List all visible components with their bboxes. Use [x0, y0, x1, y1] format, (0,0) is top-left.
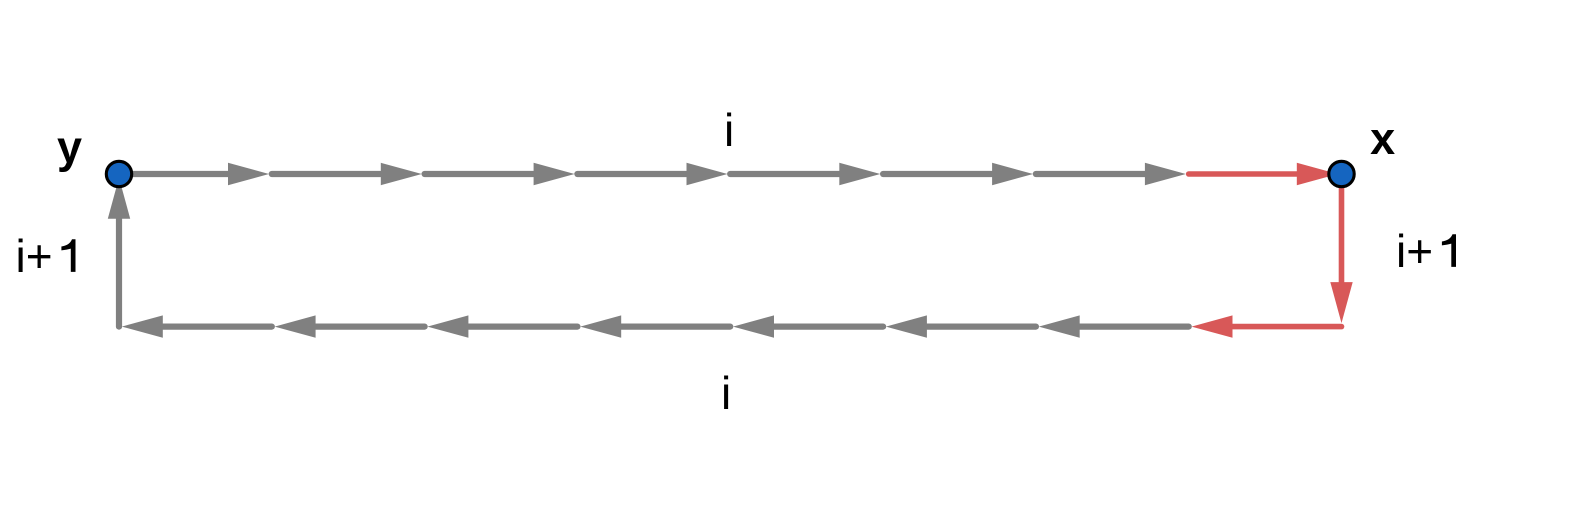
wire: right vertical from node x down (red, arrow down), label i+1 [1330, 188, 1352, 323]
wire: top edge y to x, segment 6 (gray, arrow right) [883, 163, 1033, 185]
label i+1 (left edge) [16, 230, 76, 282]
node y (blue circle) [106, 161, 131, 186]
wire: bottom edge x to y, segment 4 after red (gray, arrow left) [580, 315, 730, 337]
svg-text:i: i [721, 367, 731, 419]
wire: top edge y to x, segment 3 (gray, arrow right) [425, 163, 575, 185]
wire: bottom edge x to y, segment 6 after red (gray, arrow left) [275, 315, 425, 337]
svg-text:x: x [1370, 113, 1395, 164]
wire: bottom edge x to y, segment 3 after red (gray, arrow left) [733, 315, 883, 337]
wire: bottom edge x to y, segment 2 after red (gray, arrow left) [886, 315, 1036, 337]
wire: left vertical up into node y (gray, arrow up), label i+1 [108, 178, 130, 327]
wire: bottom edge first segment from below x (red, arrow left) [1192, 315, 1342, 337]
svg-text:y: y [57, 122, 82, 173]
svg-text:i+: i+ [16, 230, 53, 282]
wire: top edge final segment into node x (red, arrow right) [1189, 163, 1338, 185]
svg-text:i: i [724, 104, 734, 156]
wire: bottom edge x to y, segment 7 after red (gray, arrow left) [122, 315, 272, 337]
label i+1 (right edge) [1396, 225, 1456, 277]
wire: top edge y to x, segment 5 (gray, arrow right) [730, 163, 880, 185]
wire: bottom edge x to y, segment 5 after red (gray, arrow left) [427, 315, 577, 337]
wire: top edge y to x, segment 2 (gray, arrow right) [272, 163, 422, 185]
wire: top edge y to x, segment 4 (gray, arrow right) [577, 163, 727, 185]
wire: top edge y to x, segment 1 (gray, arrow right) [133, 163, 269, 185]
node x (blue circle) [1329, 161, 1354, 186]
svg-text:i+: i+ [1396, 225, 1433, 277]
wire: bottom edge x to y, segment 1 after red (gray, arrow left) [1039, 315, 1189, 337]
wire: top edge y to x, segment 7 (gray, arrow right) [1036, 163, 1186, 185]
